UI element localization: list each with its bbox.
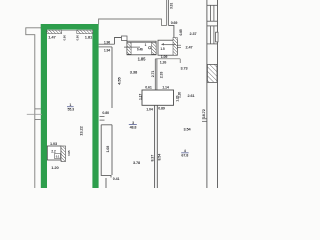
wall: room 2 hatched right wall (173, 38, 177, 56)
small box room outline (1.04/0.89) (142, 90, 174, 105)
svg-text:1.96: 1.96 (104, 41, 110, 45)
wire: window 1 mullion a (209, 5, 211, 21)
wall: hatched window parapet right segment (77, 30, 93, 33)
wall: hatched masonry block in right wall (207, 64, 217, 82)
svg-text:8.37: 8.37 (150, 155, 154, 162)
wall: long partition below box, left line (154, 105, 156, 188)
svg-text:1.09: 1.09 (161, 55, 168, 59)
wall: green highlighted room, top wall (41, 24, 99, 30)
wire: window 2 top edge (207, 25, 218, 27)
svg-text:2.37: 2.37 (190, 32, 197, 36)
svg-text:0.46: 0.46 (137, 47, 143, 51)
svg-text:0.89: 0.89 (158, 107, 165, 111)
svg-text:8.54: 8.54 (158, 154, 162, 161)
room stamp 4 / 67.8 (181, 149, 188, 158)
tick: door threshold lower (100, 119, 105, 121)
wall: hatched window parapet left segment (47, 30, 62, 33)
wire: corridor upper boundary line 2 (99, 46, 112, 48)
tick: dimension tick lower near 2.47 (177, 47, 181, 49)
wall: long partition below box, right line (156, 105, 158, 188)
svg-text:1.85: 1.85 (138, 56, 147, 61)
svg-text:48.8: 48.8 (130, 125, 137, 129)
svg-text:2.33: 2.33 (159, 72, 163, 79)
svg-text:1.26: 1.26 (160, 61, 167, 65)
wire: window 2 mullion b (213, 26, 215, 44)
svg-text:1.81: 1.81 (85, 35, 93, 40)
pier box at room 1 top-left (122, 36, 128, 41)
wire: window 1 bottom edge (207, 20, 218, 22)
tick: dimension tick upper near 2.47 (177, 44, 181, 46)
svg-text:2.71: 2.71 (151, 71, 155, 78)
wall: stub to bottom edge (105, 178, 107, 188)
svg-text:3.54: 3.54 (184, 128, 192, 132)
svg-text:1.68: 1.68 (106, 146, 110, 153)
tick: door threshold upper (100, 115, 105, 117)
svg-text:0.69: 0.69 (171, 21, 178, 25)
svg-text:0.90: 0.90 (62, 35, 66, 41)
wire: terrace outline above middle rooms (99, 19, 167, 25)
svg-text:1.5: 1.5 (160, 47, 164, 51)
svg-text:13.22: 13.22 (78, 125, 83, 135)
wall: top double-line wall left line (166, 0, 168, 25)
fixture circle in room 1 (149, 47, 151, 49)
closet box bottom-left (47, 146, 61, 160)
svg-text:1.20: 1.20 (175, 95, 179, 101)
svg-text:1.04: 1.04 (146, 108, 153, 112)
svg-text:55.3: 55.3 (67, 108, 74, 112)
svg-text:3.73: 3.73 (181, 67, 188, 71)
tick: wall dimension tick lower (202, 120, 207, 122)
wire: building outer step outline top-left (26, 28, 41, 188)
wire: room 1 inner top line (127, 42, 156, 44)
wire: corridor upper boundary line 1 (99, 43, 115, 45)
wire: window 1 top edge (207, 4, 218, 6)
wall: closet hatched right wall (61, 146, 66, 162)
room 1 outline (1.85) (127, 41, 156, 55)
closet inner box (55, 154, 61, 159)
svg-text:2.47: 2.47 (186, 45, 193, 49)
svg-text:3.91: 3.91 (170, 3, 174, 9)
svg-text:0.90: 0.90 (76, 35, 80, 41)
wire: step 0.69/0.85 outline (168, 25, 176, 43)
room 2 outline (1.09) (158, 40, 177, 55)
svg-text:1.17: 1.17 (139, 94, 143, 100)
wall: corridor right wall (111, 47, 113, 108)
room stamp 3 / 48.8 (129, 121, 137, 129)
svg-text:2.2: 2.2 (51, 150, 56, 154)
wire: lower boundary line under room 2 (155, 58, 180, 60)
wall: right outer wall outer line (217, 0, 219, 188)
svg-text:3.38: 3.38 (130, 69, 138, 74)
wire: window opening sill line (62, 29, 77, 31)
wall: room 1 hatched left wall (127, 42, 131, 54)
wall: duct double wall between rooms and box (155, 59, 157, 90)
wall: green highlighted room, right wall (92, 24, 98, 188)
svg-text:1.94: 1.94 (104, 48, 110, 52)
wire: alcove step before room 1 (115, 38, 122, 45)
svg-text:67.8: 67.8 (181, 154, 188, 158)
svg-text:1.20: 1.20 (51, 165, 59, 170)
svg-text:1.14: 1.14 (162, 85, 169, 89)
wall: top double-line wall right line (167, 0, 169, 25)
wire: leader line through room 2 (161, 44, 175, 46)
pier bracket on right wall (216, 32, 218, 42)
wall: right outer wall inner line (206, 0, 208, 188)
wall: room 1 hatched right wall (152, 42, 157, 54)
svg-text:4.55: 4.55 (116, 77, 121, 85)
wire: window 2 bottom edge (207, 43, 218, 45)
svg-text:1.03: 1.03 (50, 142, 57, 146)
tick: wall dimension tick upper (202, 118, 207, 120)
wire: connector pier to room 1 (127, 41, 128, 44)
svg-text:0.1: 0.1 (56, 155, 60, 159)
svg-text:0.80: 0.80 (102, 111, 109, 115)
tick: lower level mark left of green wall (35, 118, 41, 120)
tick: long gray level mark (27, 113, 42, 115)
svg-text:3.78: 3.78 (133, 161, 140, 165)
wire: window 2 mullion a (209, 26, 211, 44)
svg-text:18.72: 18.72 (202, 109, 206, 118)
svg-text:0.95: 0.95 (67, 150, 71, 156)
wall: green highlighted room, left wall (41, 24, 47, 188)
tick: upper level mark left of green wall (35, 108, 41, 110)
svg-text:0.85: 0.85 (179, 29, 183, 35)
wire: short drop at right end (179, 59, 181, 63)
svg-text:1.47: 1.47 (48, 35, 56, 40)
svg-text:0.61: 0.61 (145, 85, 152, 89)
svg-text:0.41: 0.41 (113, 177, 120, 181)
svg-text:2.61: 2.61 (188, 94, 195, 98)
wire: leader line through room 1 (124, 46, 140, 48)
wall: narrow strip room right of green wall (101, 125, 112, 178)
room stamp 1 / 55.3 (67, 103, 74, 112)
wire: window 1 mullion b (213, 5, 215, 21)
